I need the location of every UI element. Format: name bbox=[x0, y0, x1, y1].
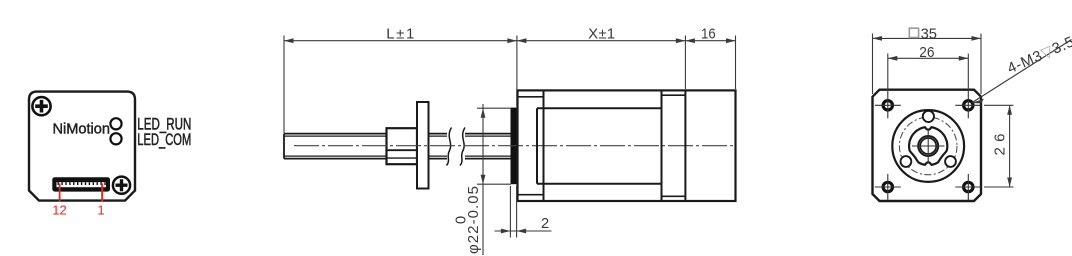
stator front edge bbox=[536, 108, 538, 183]
ext 35 right bbox=[980, 34, 982, 95]
lead screw left segment bbox=[284, 134, 387, 159]
svg-text:0φ22-0.05: 0φ22-0.05 bbox=[453, 186, 483, 254]
shaft circle inner bbox=[920, 138, 936, 154]
mounting hole bottom-left bbox=[875, 174, 901, 200]
centerline bbox=[294, 145, 736, 147]
arrow 16 right bbox=[726, 38, 736, 43]
extension line at flange face bbox=[516, 36, 518, 107]
arrow 35 left bbox=[873, 36, 883, 41]
small hole lower-right bbox=[945, 156, 956, 167]
dim square35 line bbox=[873, 37, 982, 39]
svg-text:2: 2 bbox=[541, 215, 549, 232]
svg-text:35: 35 bbox=[921, 25, 937, 42]
svg-text:X±1: X±1 bbox=[588, 26, 615, 43]
leader arrowhead bbox=[972, 99, 985, 104]
dim 2 ext left bbox=[509, 186, 511, 238]
crosshair horizontal bbox=[912, 145, 944, 147]
module outline bbox=[29, 92, 135, 201]
svg-text:L±1: L±1 bbox=[386, 26, 414, 43]
LED COM circle bbox=[110, 133, 121, 144]
stator bottom line bbox=[537, 183, 662, 185]
ext 35 left bbox=[872, 34, 874, 95]
pin 12 marker bbox=[59, 184, 61, 202]
nut block bbox=[387, 128, 418, 164]
extension line at cap joint bbox=[684, 36, 686, 90]
flange plate of nut bbox=[417, 102, 429, 189]
dim 2 arrow left bbox=[501, 229, 511, 234]
phi22 ext bottom bbox=[477, 183, 511, 185]
arrow L left bbox=[284, 38, 294, 43]
flange inner bottom line bbox=[518, 194, 544, 196]
break line right bbox=[460, 128, 465, 166]
svg-text:4-M3▽3.5: 4-M3▽3.5 bbox=[1005, 33, 1072, 77]
connector slot with pins bbox=[57, 182, 107, 187]
ext 26h right bbox=[967, 54, 969, 93]
svg-text:NiMotion: NiMotion bbox=[53, 120, 111, 137]
arrow X right bbox=[676, 38, 686, 43]
arrow 35 right bbox=[972, 36, 982, 41]
pilot circle phi22 bbox=[892, 110, 964, 182]
arrow 26v bottom bbox=[1007, 178, 1012, 188]
ext 26h left bbox=[887, 54, 889, 93]
svg-text:1: 1 bbox=[97, 203, 104, 218]
lead screw right segment a bbox=[429, 134, 448, 159]
bolt circle (dash-dot) bbox=[899, 117, 957, 175]
square flange outline bbox=[873, 90, 982, 201]
svg-text:26: 26 bbox=[919, 44, 934, 61]
hub cam outline bbox=[909, 127, 947, 165]
flange joint line bbox=[543, 90, 545, 201]
mounting hole top-left bbox=[875, 92, 901, 118]
phi22 dimension line bbox=[482, 104, 484, 255]
dim 26 horizontal line bbox=[888, 57, 969, 59]
extension line at cap end bbox=[735, 36, 737, 90]
dimension line top bbox=[284, 40, 736, 42]
mounting hole bottom-right bbox=[955, 174, 981, 200]
break line left bbox=[447, 128, 452, 166]
svg-text:12: 12 bbox=[52, 203, 66, 218]
nut inner line 2 bbox=[387, 157, 418, 159]
leader line 4-M3 bbox=[972, 40, 1072, 103]
connector body bbox=[52, 177, 110, 191]
label square 35 bbox=[909, 28, 918, 37]
phi22 ext top bbox=[477, 107, 511, 109]
lead screw right segment b bbox=[465, 134, 511, 159]
arrow 26v top bbox=[1007, 105, 1012, 115]
nut inner line 1 bbox=[387, 149, 418, 151]
motor body outline bbox=[518, 90, 736, 201]
phi22 arrow up bbox=[481, 108, 486, 118]
flange inner top line bbox=[518, 96, 544, 98]
svg-text:26: 26 bbox=[992, 134, 1009, 156]
arrow 16 left bbox=[685, 38, 695, 43]
mounting hole top-right bbox=[955, 92, 981, 118]
rear band right joint bbox=[684, 90, 686, 201]
rear band inner top bbox=[662, 94, 686, 96]
arrow 26h right bbox=[959, 56, 969, 61]
arrow 26h left bbox=[888, 56, 898, 61]
LED RUN circle bbox=[110, 118, 121, 129]
ext 26v bottom bbox=[984, 186, 1014, 188]
ext 26v top bbox=[984, 104, 1014, 106]
dim 2 arrow right bbox=[517, 229, 527, 234]
shaft circle outer bbox=[918, 136, 938, 156]
extension line at screw tip bbox=[283, 36, 285, 134]
svg-text:16: 16 bbox=[701, 25, 716, 42]
pin 1 marker bbox=[101, 184, 103, 202]
svg-text:LED_COM: LED_COM bbox=[137, 131, 191, 149]
screw bottom-right bbox=[113, 177, 130, 194]
dim 2 line bbox=[495, 230, 552, 232]
dim 2 ext right bbox=[516, 186, 518, 238]
crosshair vertical bbox=[927, 129, 929, 164]
screw top-left bbox=[32, 97, 50, 115]
rear band inner bottom bbox=[662, 195, 686, 197]
phi22 arrow down bbox=[481, 175, 486, 185]
dim 26 vertical line bbox=[1009, 105, 1011, 187]
small hole lower-left bbox=[901, 156, 912, 167]
pilot boss (phi22) bbox=[511, 108, 518, 185]
arrow L right bbox=[507, 38, 517, 43]
rear band left joint bbox=[661, 90, 663, 201]
small hole top bbox=[923, 111, 934, 122]
arrow X left bbox=[517, 38, 527, 43]
stator top line bbox=[537, 107, 662, 109]
